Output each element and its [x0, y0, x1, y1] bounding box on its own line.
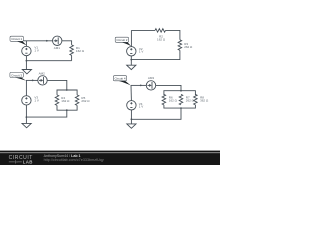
wire node to AM2 [26, 79, 38, 81]
voltage source V3 [22, 96, 31, 105]
svg-text:262 Ω: 262 Ω [81, 99, 90, 103]
svg-text:Circuit 1: Circuit 1 [11, 37, 22, 41]
svg-text:262 Ω: 262 Ω [184, 45, 193, 49]
wire V1 top [25, 41, 27, 47]
svg-text:AM1: AM1 [54, 46, 61, 50]
svg-text:Circuit 4: Circuit 4 [114, 77, 125, 81]
wire node to AM3 [131, 84, 146, 86]
resistor R2 [155, 29, 166, 33]
wire top to R2 [131, 29, 155, 31]
wire top V1 to AM1 [24, 40, 53, 42]
node junction V4 bottom [131, 118, 133, 120]
resistor R8 [194, 94, 198, 105]
node dot top bar c4 [180, 90, 182, 92]
svg-text:AM2: AM2 [39, 72, 46, 76]
svg-text:362 Ω: 362 Ω [200, 98, 209, 102]
voltage source V4 [127, 101, 136, 110]
node junction V1 bottom [26, 60, 28, 62]
bottom bar c4 [164, 105, 196, 108]
ground circuit1 [22, 70, 31, 74]
node junction V3 bottom [26, 116, 28, 118]
svg-text:1 V: 1 V [139, 50, 144, 54]
resistor R6 [162, 94, 166, 105]
svg-text:162 Ω: 162 Ω [157, 38, 166, 42]
wire V1 to ground [25, 56, 27, 70]
wire AM1 to R1 corner [62, 41, 72, 45]
svg-text:162 Ω: 162 Ω [169, 98, 178, 102]
svg-text:http://circuitlab.com/c7e333bm: http://circuitlab.com/c7e333bmzfUqy [44, 158, 104, 162]
ground circuit3 [22, 123, 31, 127]
bottom bar c3 [57, 105, 77, 110]
wire R2 to right rail [166, 30, 180, 39]
wire AM2 to parallel box [47, 80, 67, 90]
svg-text:LAB: LAB [23, 160, 33, 165]
left rail c3 top [25, 80, 27, 95]
voltage source V2 [127, 47, 136, 56]
label tail circuit4 [118, 81, 131, 86]
node dot left of AM1 [46, 40, 48, 42]
resistor R7 [179, 94, 183, 105]
node dot bottom bar c3 [66, 109, 68, 111]
ground circuit2 [127, 65, 136, 69]
wire R1 bottom [71, 55, 73, 60]
resistor R5 [75, 95, 79, 106]
node dot left of AM2 [32, 80, 34, 82]
svg-text:Circuit 3: Circuit 3 [11, 73, 22, 77]
logo battery line [9, 160, 22, 163]
label box Circuit 4 [113, 76, 126, 81]
resistor R4 [55, 95, 59, 106]
resistor R1 [70, 45, 74, 56]
wire bottom circuit1 [26, 60, 71, 62]
ammeter AM1 [53, 36, 62, 45]
top bar c3 [57, 90, 77, 95]
node dot left of AM3 [140, 85, 142, 87]
svg-text:Circuit 2: Circuit 2 [116, 38, 127, 42]
wire AM3 to parallel box [156, 85, 181, 90]
svg-text:1 V: 1 V [139, 105, 144, 109]
voltage source V1 [22, 46, 31, 55]
svg-text:AM3: AM3 [148, 76, 155, 80]
label tail circuit3 [15, 77, 26, 80]
node dot bottom bar c4 [180, 107, 182, 109]
wire V3 to ground [25, 105, 27, 123]
label box Circuit 2 [115, 37, 128, 42]
label tail circuit2 [122, 42, 132, 46]
label box Circuit 1 [10, 36, 23, 41]
tee down c4 [131, 108, 181, 119]
node junction V2 bottom [130, 59, 132, 61]
ground circuit4 [127, 124, 136, 128]
svg-text:1 V: 1 V [34, 99, 39, 103]
wire V2 to ground [130, 56, 132, 65]
svg-text:1 V: 1 V [34, 49, 39, 53]
wire top rail V2 up [130, 30, 132, 46]
label tail circuit1 [17, 41, 27, 45]
left rail c4 top [130, 85, 132, 100]
svg-text:162 Ω: 162 Ω [76, 49, 85, 53]
resistor R3 [178, 40, 182, 51]
top bar c4 [164, 91, 196, 96]
svg-text:162 Ω: 162 Ω [61, 99, 70, 103]
node dot top bar c3 [66, 89, 68, 91]
ammeter AM3 [146, 81, 155, 90]
wire right rail down [131, 50, 180, 59]
wire V4 to ground [130, 110, 132, 124]
svg-text:262 Ω: 262 Ω [186, 98, 195, 102]
ammeter AM2 [38, 76, 47, 85]
label box Circuit 3 [10, 72, 23, 77]
tee down c3 [26, 110, 66, 117]
